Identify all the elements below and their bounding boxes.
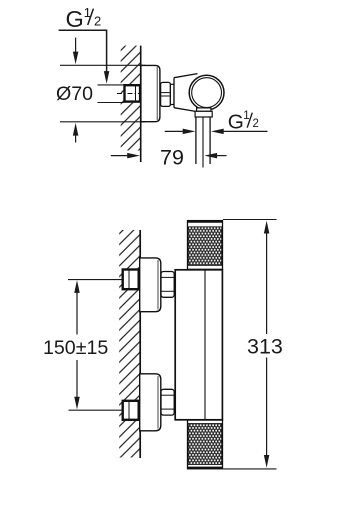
svg-text:G: G [66, 6, 84, 32]
svg-text:Ø70: Ø70 [56, 83, 93, 105]
svg-text:2: 2 [253, 118, 259, 130]
svg-text:2: 2 [94, 13, 101, 28]
svg-text:313: 313 [247, 335, 283, 359]
svg-text:G: G [228, 110, 244, 133]
svg-text:79: 79 [160, 146, 184, 170]
svg-text:150±15: 150±15 [43, 337, 108, 359]
svg-text:1: 1 [243, 110, 249, 122]
